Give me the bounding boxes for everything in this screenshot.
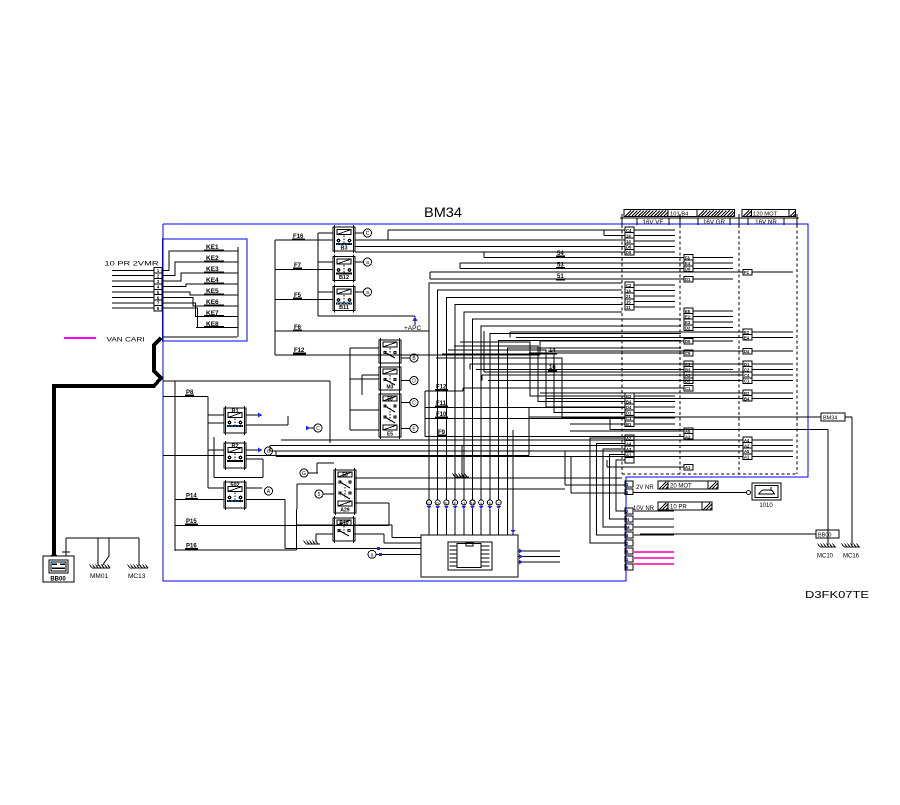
arrow into ECU left — [368, 550, 376, 558]
ECU connector pin circles — [426, 500, 501, 535]
svg-text:B4: B4 — [744, 396, 750, 401]
wire F11 stub — [425, 407, 625, 409]
svg-text:D: D — [436, 501, 439, 506]
svg-text:5: 5 — [318, 492, 321, 498]
+APC arrow and label — [413, 317, 418, 322]
relay R1 — [224, 406, 246, 435]
wires bottom cells to right under bar — [634, 511, 674, 535]
svg-text:G: G — [302, 471, 306, 477]
connector cells group M6 — [684, 361, 693, 384]
svg-text:BB00: BB00 — [50, 577, 66, 583]
wire F10 stub — [425, 418, 625, 420]
svg-text:14: 14 — [626, 288, 631, 293]
wire to motor 1010 — [633, 492, 747, 494]
svg-text:D1: D1 — [685, 277, 691, 282]
svg-text:14: 14 — [626, 233, 631, 238]
svg-text:C: C — [316, 426, 320, 432]
shield bar S 20 MOT S — [658, 481, 718, 490]
svg-text:BB00: BB00 — [818, 533, 831, 539]
motor 1010 box — [752, 483, 781, 509]
svg-text:D4: D4 — [626, 405, 632, 410]
wire 16 mid — [484, 371, 743, 373]
stub wires right of middle cells — [693, 257, 733, 380]
svg-text:D5: D5 — [626, 250, 632, 255]
ECU enclosure box BM34 outline — [163, 224, 808, 581]
wire M5 row — [529, 352, 684, 354]
svg-text:a: a — [366, 290, 369, 296]
wire harness into connector — [112, 270, 154, 308]
battery terminal arrow — [51, 552, 58, 557]
splice circle C — [364, 229, 372, 237]
svg-text:C: C — [412, 401, 416, 407]
connector cells group M3 16V GR — [684, 308, 693, 331]
relay 1320a — [379, 338, 401, 365]
splice circle D — [410, 377, 418, 385]
svg-text:MC16: MC16 — [843, 554, 860, 560]
fuse B11 — [333, 285, 355, 313]
svg-text:E2: E2 — [744, 330, 750, 335]
svg-text:E5: E5 — [387, 432, 393, 438]
svg-text:D: D — [412, 379, 416, 385]
battery BB00 — [43, 551, 74, 583]
svg-text:C5: C5 — [685, 351, 691, 356]
relay 1320b — [379, 365, 401, 392]
wire M8 row — [570, 430, 684, 432]
relay R4 — [334, 468, 356, 515]
svg-text:E3: E3 — [685, 320, 691, 325]
pink VAN data wires — [633, 552, 674, 564]
wire P16 — [175, 549, 297, 551]
svg-text:a: a — [371, 552, 374, 558]
svg-text:N: N — [626, 517, 629, 522]
wire exit to MC10 — [610, 429, 828, 431]
wire staircase bundle to G3 cells — [436, 342, 625, 418]
wire F12b stub — [425, 390, 463, 392]
svg-text:BM34: BM34 — [823, 416, 837, 422]
fuse B3 — [333, 225, 355, 253]
ECU control unit box 1320 — [421, 535, 518, 577]
svg-text:20 MOT: 20 MOT — [670, 484, 692, 490]
ground MM01 — [90, 565, 111, 569]
splice circle A — [265, 487, 273, 495]
ground MC16 — [842, 544, 861, 548]
splice circle B — [410, 354, 418, 362]
svg-text:a: a — [366, 260, 369, 266]
relay B10 — [333, 516, 355, 543]
svg-text:B2: B2 — [744, 391, 750, 396]
svg-text:D6: D6 — [626, 245, 632, 250]
wire bus vertical x175 — [174, 381, 176, 551]
connector cells group R6c — [743, 437, 752, 460]
svg-text:E5: E5 — [685, 309, 691, 314]
svg-text:D2: D2 — [685, 326, 691, 331]
VAN CARI legend line — [64, 337, 96, 339]
svg-text:G: G — [462, 501, 465, 506]
wire F5 to fuse B11 — [275, 299, 333, 301]
svg-text:10 PR: 10 PR — [670, 505, 687, 511]
wire 51 — [430, 271, 743, 273]
connector cells group M1 16V GR — [684, 255, 693, 272]
wire P15 — [175, 524, 389, 526]
stub wires right of G1-G4 cells — [634, 230, 675, 424]
svg-text:C2: C2 — [744, 367, 750, 372]
ground MC10 — [818, 544, 837, 548]
svg-text:10V NR: 10V NR — [633, 506, 655, 512]
svg-text:C: C — [428, 501, 431, 506]
connector cells group G1 16V VE — [625, 227, 634, 255]
svg-text:14: 14 — [626, 239, 631, 244]
bottom connector cells upper — [625, 481, 633, 495]
svg-text:A5: A5 — [744, 449, 750, 454]
splice circle a2 — [364, 288, 372, 296]
svg-text:c: c — [498, 501, 500, 506]
wire B12 top pin — [318, 261, 333, 263]
ground below B10 — [304, 541, 321, 545]
dashed connector-zone box — [622, 225, 797, 474]
wire bus vertical x275 — [274, 240, 276, 355]
wire F6 long — [275, 330, 429, 332]
shield bar S120 MOT S — [742, 210, 796, 218]
wire battery to grounds — [62, 538, 139, 566]
wire down into ECU right x513 — [512, 430, 514, 535]
svg-text:E: E — [445, 501, 448, 506]
svg-text:D1: D1 — [626, 411, 632, 416]
svg-text:M: M — [626, 525, 630, 530]
connector cell M2 — [684, 276, 693, 282]
wire bundle to R2c cells — [510, 331, 743, 333]
connector cell R1c — [743, 269, 752, 275]
svg-text:D4: D4 — [744, 349, 750, 354]
svg-text:C1: C1 — [744, 379, 750, 384]
wire G3 sixth — [570, 423, 625, 425]
connector cells group M8 — [684, 428, 693, 439]
connector header line with ticks — [620, 214, 799, 225]
svg-text:VAN CARI: VAN CARI — [107, 338, 145, 344]
B10 wires — [297, 525, 421, 543]
splice circle 5a — [315, 490, 323, 498]
svg-text:E2: E2 — [685, 314, 691, 319]
stub wires right of right-column cells — [752, 272, 793, 456]
wire +APC feed — [318, 315, 415, 317]
svg-text:E4: E4 — [685, 261, 691, 266]
wire 54 — [484, 256, 684, 258]
svg-text:C1: C1 — [685, 386, 691, 391]
wire F12 long — [275, 354, 379, 356]
svg-text:10 PR 2VMR: 10 PR 2VMR — [105, 262, 160, 268]
feed wires into middle stack — [350, 348, 379, 430]
relay 502 — [224, 480, 246, 510]
wire bundle fuse outputs to connector G1 — [355, 230, 625, 252]
svg-text:M3: M3 — [387, 385, 394, 391]
shield bar S 10 PR S — [658, 502, 712, 511]
svg-text:D1: D1 — [744, 362, 750, 367]
wire vertical bus x318 — [317, 233, 319, 316]
battery supply thick wire — [54, 338, 161, 556]
svg-text:E4: E4 — [744, 335, 750, 340]
svg-text:A4: A4 — [744, 438, 750, 443]
svg-text:B4: B4 — [626, 399, 632, 404]
svg-text:120 MOT: 120 MOT — [753, 212, 778, 218]
svg-text:R2: R2 — [231, 444, 238, 450]
svg-text:B3: B3 — [340, 246, 347, 252]
svg-text:A2: A2 — [744, 443, 750, 448]
wire loop R2 to 502 — [214, 437, 263, 478]
svg-text:B10: B10 — [339, 521, 348, 527]
svg-text:MC13: MC13 — [128, 573, 146, 580]
svg-text:C4: C4 — [626, 228, 632, 233]
wire B11 top pin — [318, 291, 333, 293]
KE1-KE8 fan wires — [162, 244, 238, 337]
svg-text:B1: B1 — [626, 422, 632, 427]
ECU right output wires — [518, 549, 560, 565]
svg-text:D5: D5 — [685, 339, 691, 344]
connector cell M7 — [684, 385, 693, 391]
connector cells group R5c — [743, 390, 752, 401]
svg-text:B11: B11 — [339, 305, 349, 311]
connector cell R3c — [743, 348, 752, 354]
svg-text:MM01: MM01 — [90, 573, 108, 580]
svg-text:B12: B12 — [339, 275, 349, 281]
splice circle E — [410, 425, 418, 433]
R2 wires — [163, 417, 529, 456]
inner connector box outline — [163, 239, 248, 341]
fuse B12 — [333, 255, 355, 283]
splice circle a — [364, 258, 372, 266]
svg-text:F6: F6 — [685, 255, 691, 260]
svg-text:D3FK07TE: D3FK07TE — [805, 589, 869, 601]
splice circle C2 — [410, 399, 418, 407]
svg-text:D6: D6 — [685, 267, 691, 272]
wire exit to MC16 — [529, 416, 852, 418]
svg-text:50: 50 — [387, 397, 393, 403]
svg-text:BM34: BM34 — [424, 205, 463, 220]
splice circle G — [300, 469, 308, 477]
IC symbol inside ECU — [448, 542, 492, 570]
svg-text:C: C — [366, 231, 370, 237]
long cross wires y440-457 — [270, 440, 743, 457]
ground above ECU — [453, 474, 470, 478]
wire y381 top — [163, 380, 330, 382]
wire P8 — [163, 396, 208, 398]
svg-text:A1: A1 — [685, 465, 691, 470]
svg-text:A29: A29 — [340, 508, 349, 514]
svg-text:16V GR: 16V GR — [703, 219, 726, 226]
shield bar S101 B4 S — [624, 210, 735, 218]
svg-text:502: 502 — [230, 483, 239, 489]
svg-text:H: H — [471, 501, 474, 506]
wire F16 to fuse B3 — [275, 239, 333, 241]
bottom connector cells lower — [625, 508, 633, 570]
svg-text:C2: C2 — [626, 283, 632, 288]
svg-text:16V VE: 16V VE — [643, 219, 664, 226]
wire vertical x425 — [424, 391, 426, 436]
wire F9 stub — [425, 435, 684, 437]
svg-text:2V NR: 2V NR — [636, 485, 654, 491]
svg-text:15: 15 — [626, 300, 631, 305]
connector cells group G2 16V VE — [625, 282, 634, 310]
connector 10-way strip — [154, 268, 162, 312]
connector cells group G4 16V VE — [625, 435, 634, 463]
connector cell M5 — [684, 350, 693, 356]
connector cells group G3 16V VE — [625, 393, 634, 427]
wire vertical x208 — [207, 397, 209, 489]
svg-text:A2: A2 — [685, 434, 691, 439]
wire 53 — [460, 262, 684, 264]
label box BB00 right — [816, 530, 839, 538]
R1 wires — [208, 413, 288, 425]
staple wires cells 1-2 left — [565, 451, 625, 493]
svg-text:F2: F2 — [744, 270, 750, 275]
wire staples lower strip to G4 cells — [590, 438, 625, 543]
svg-text:21: 21 — [626, 294, 631, 299]
svg-text:16V NR: 16V NR — [755, 219, 777, 226]
svg-text:11: 11 — [626, 305, 631, 310]
svg-text:C4: C4 — [744, 373, 750, 378]
wire R3c row — [548, 350, 743, 352]
wire 14 mid — [275, 354, 540, 356]
svg-text:MC10: MC10 — [817, 554, 834, 560]
label box BM34 exit — [821, 413, 845, 421]
wire F7 to fuse B12 — [275, 269, 333, 271]
connector cell M4 — [684, 338, 693, 344]
ground MC13 — [128, 565, 149, 569]
splice circle near R1 — [314, 424, 322, 432]
connector cell M9 — [684, 464, 693, 470]
splice circle 6 — [265, 447, 273, 455]
svg-text:A1: A1 — [744, 455, 750, 460]
wire B3 top pin — [318, 232, 333, 234]
svg-text:1010: 1010 — [759, 503, 773, 509]
wire into ECU left 1 — [285, 547, 421, 549]
relay 1320c tall — [379, 392, 401, 439]
R4 wires — [297, 463, 622, 525]
wire bundle R5c rows — [540, 392, 743, 394]
connector cells group R2c — [743, 329, 752, 340]
wire M9 row — [607, 466, 684, 468]
502 wires — [175, 488, 285, 548]
svg-text:R1: R1 — [231, 409, 238, 415]
svg-text:50: 50 — [342, 473, 348, 479]
wire bundle M6/R4c rows — [470, 364, 743, 381]
connector cells group R4c — [743, 361, 752, 384]
wire B to BB00 label — [640, 533, 816, 535]
relay R2 — [224, 441, 246, 470]
wire staircase bundle to ECU pins — [429, 283, 681, 535]
